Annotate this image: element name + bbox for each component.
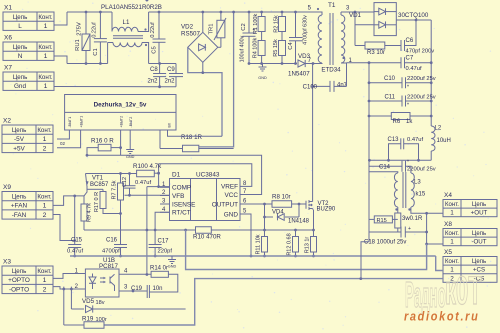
- module pin label: [68, 117, 72, 128]
- wire out vert: [426, 213, 428, 244]
- svg-text:BC857: BC857: [90, 182, 109, 188]
- wire X3 pin2: [53, 287, 85, 291]
- transistor VT1: [84, 174, 103, 196]
- ic left pins: [160, 182, 195, 217]
- svg-text:+ВЫГ1: +ВЫГ1: [79, 116, 83, 128]
- wire R100 to COMP: [157, 164, 160, 188]
- label pin1: [349, 58, 353, 64]
- label C7 value: [406, 66, 423, 72]
- wire dezhurka gnd pin: [129, 130, 131, 146]
- wire bridge bottom: [201, 62, 204, 74]
- resistor R4: [258, 32, 265, 65]
- svg-text:T1: T1: [328, 2, 336, 9]
- label R19: [82, 316, 107, 324]
- label VD1: [349, 12, 362, 19]
- label C8: [150, 67, 158, 73]
- wire L3 left bottom: [397, 207, 399, 213]
- svg-text:R100 4.7k: R100 4.7k: [133, 163, 162, 170]
- svg-text:C8: C8: [150, 67, 158, 73]
- label BC857: [90, 182, 109, 188]
- label R7: [112, 180, 118, 199]
- label BUZ90: [317, 207, 336, 213]
- resistor R7: [118, 174, 124, 245]
- capacitor C15: [68, 245, 81, 258]
- svg-text:R13 1r: R13 1r: [305, 237, 311, 254]
- module pin label: [119, 116, 123, 128]
- capacitor C1: [94, 11, 107, 65]
- label L2 value: [437, 138, 451, 144]
- resistor R9: [81, 196, 87, 230]
- svg-text:ETD34: ETD34: [321, 67, 341, 74]
- svg-text:GND: GND: [224, 211, 239, 218]
- wire R3 branch: [354, 25, 356, 46]
- svg-text:100r: 100r: [96, 317, 107, 323]
- wire bottom rail: [67, 63, 108, 65]
- svg-text:1N5407: 1N5407: [288, 71, 310, 78]
- svg-text:R7 7.5k: R7 7.5k: [112, 180, 118, 199]
- label VT1: [92, 176, 104, 182]
- connector X1: [3, 5, 54, 31]
- connector X5: [443, 249, 497, 282]
- ground control: [168, 256, 177, 269]
- label 4n7: [337, 83, 348, 89]
- transistor VT2 BUZ90: [306, 200, 313, 210]
- svg-text:100uf 400v: 100uf 400v: [240, 35, 246, 62]
- svg-text:GND: GND: [258, 76, 267, 80]
- svg-text:GND: GND: [168, 265, 177, 269]
- svg-text:R2 15k: R2 15k: [273, 15, 279, 33]
- capacitor C5: [153, 11, 166, 65]
- transformer T1 core: [330, 13, 333, 65]
- svg-text:Конт.: Конт.: [37, 127, 52, 134]
- module pin label: [79, 116, 83, 128]
- svg-text:VD2: VD2: [181, 24, 194, 31]
- svg-text:C15: C15: [71, 238, 83, 244]
- svg-text:-ВЫГ2: -ВЫГ2: [129, 117, 133, 128]
- wire gnd pin5: [250, 214, 253, 257]
- svg-text:C1: C1: [93, 48, 99, 55]
- phase dots L3: [395, 208, 410, 210]
- label R17: [94, 192, 100, 212]
- svg-text:C19: C19: [131, 286, 143, 292]
- svg-text:R16 0 R: R16 0 R: [91, 138, 114, 145]
- wire R9 R10 line: [84, 0, 196, 231]
- resistor R11: [262, 230, 268, 257]
- svg-text:4700pf: 4700pf: [102, 248, 120, 254]
- svg-text:18v: 18v: [96, 300, 105, 306]
- wire bottom rail 2: [149, 63, 176, 65]
- resistor R8: [272, 201, 306, 208]
- wire sense A up: [426, 244, 428, 269]
- label C10 value: [407, 76, 436, 82]
- svg-text:L3: L3: [414, 180, 421, 186]
- module pin label: [129, 117, 133, 128]
- ic right pins: [212, 181, 251, 218]
- wire COMP line: [146, 187, 170, 276]
- svg-text:2n2: 2n2: [165, 79, 176, 85]
- wire X1 to top rail: [54, 12, 67, 25]
- svg-text:30CTQ100: 30CTQ100: [398, 12, 429, 19]
- transformer L3 right: [411, 173, 414, 207]
- label U1B: [103, 257, 115, 264]
- label VT2: [318, 201, 330, 207]
- svg-text:470pf 200v: 470pf 200v: [406, 49, 435, 55]
- capacitor C6: [385, 20, 416, 51]
- capacitor C12: [124, 174, 136, 197]
- svg-text:Конт.: Конт.: [37, 268, 52, 275]
- connector X6: [3, 35, 54, 61]
- wire R19 branch: [64, 287, 84, 325]
- choke L1 lower winding: [108, 43, 149, 64]
- label R100: [133, 163, 162, 170]
- svg-text:C4: C4: [288, 42, 294, 50]
- svg-text:Конт.: Конт.: [37, 193, 52, 200]
- label C11: [384, 95, 395, 101]
- label C12: [122, 177, 128, 187]
- svg-text:C9: C9: [167, 67, 175, 73]
- svg-text:VD5: VD5: [82, 298, 95, 305]
- svg-text:X9: X9: [3, 184, 11, 191]
- label R16: [91, 138, 114, 145]
- svg-text:-OUT: -OUT: [471, 239, 486, 246]
- svg-text:X4: X4: [444, 192, 452, 199]
- wire X7 to C8 node: [54, 86, 160, 88]
- capacitor C100: [311, 81, 346, 92]
- svg-text:Цепь: Цепь: [13, 44, 28, 51]
- capacitor C18: [369, 226, 428, 238]
- svg-text:+OPTO: +OPTO: [8, 277, 30, 284]
- label RS507: [181, 31, 200, 38]
- svg-text:220pf: 220pf: [158, 249, 173, 255]
- label C18: [364, 240, 406, 246]
- wire X8 row: [425, 243, 443, 246]
- svg-text:C5: C5: [152, 46, 158, 53]
- svg-text:L: L: [18, 23, 22, 30]
- capacitor C9: [169, 64, 183, 87]
- label T1: [328, 2, 336, 9]
- diode VD1a: [374, 8, 396, 15]
- svg-text:Gnd: Gnd: [14, 83, 27, 90]
- svg-text:BUZ90: BUZ90: [317, 207, 336, 213]
- svg-text:X6: X6: [4, 35, 12, 42]
- label k15: [416, 192, 426, 198]
- svg-text:X8: X8: [444, 221, 452, 228]
- wire bridge right: [218, 46, 221, 48]
- label C13: [387, 137, 399, 143]
- resistor R17: [100, 189, 121, 213]
- svg-text:0.47uf: 0.47uf: [406, 66, 423, 72]
- wire HV minus rail: [249, 63, 297, 65]
- svg-text:4700pf 630v: 4700pf 630v: [303, 15, 309, 45]
- svg-text:R10 470R: R10 470R: [193, 234, 221, 241]
- svg-text:0.22uf: 0.22uf: [150, 22, 156, 38]
- diode VD4: [263, 204, 299, 230]
- label C6 value: [406, 49, 435, 55]
- label L3: [414, 180, 421, 186]
- svg-text:0.47uf: 0.47uf: [135, 180, 152, 186]
- label C100: [303, 85, 318, 91]
- svg-text:C13: C13: [387, 137, 399, 143]
- svg-text:C100: C100: [303, 85, 318, 91]
- svg-text:VT1: VT1: [92, 176, 104, 182]
- label 2n2 C9: [165, 79, 176, 85]
- svg-text:Конт.: Конт.: [445, 259, 459, 265]
- label pin5: [308, 6, 312, 12]
- svg-text:1: 1: [43, 136, 47, 143]
- resistor R15: [369, 216, 398, 223]
- svg-text:Конт.: Конт.: [38, 74, 53, 81]
- svg-text:C2: C2: [241, 23, 247, 30]
- svg-text:X5: X5: [444, 249, 452, 256]
- svg-text:2200uf 25v: 2200uf 25v: [407, 76, 436, 82]
- wire secondary top rail: [341, 11, 374, 14]
- svg-text:Цепь: Цепь: [12, 268, 27, 275]
- wire L3 out to X4: [411, 207, 443, 215]
- capacitor C7: [401, 57, 433, 68]
- transformer L3 core: [403, 172, 406, 208]
- svg-text:-OPTO: -OPTO: [9, 286, 29, 293]
- svg-text:1: 1: [43, 277, 47, 284]
- resistor 3w0.1R: [395, 213, 401, 232]
- svg-text:C14: C14: [379, 165, 391, 171]
- capacitor C19: [147, 285, 149, 298]
- label C9: [167, 67, 175, 73]
- label C16 value: [102, 248, 120, 254]
- svg-text:PLA10AN5521R0R2B: PLA10AN5521R0R2B: [101, 4, 162, 11]
- connector X4: [443, 192, 497, 217]
- svg-text:R11 10k: R11 10k: [256, 234, 262, 254]
- svg-text:TR1: TR1: [209, 24, 215, 35]
- wire C8 C9 bottom: [160, 86, 176, 88]
- label TR1: [209, 24, 215, 35]
- svg-text:-ВЫГ1: -ВЫГ1: [68, 117, 72, 128]
- wire dezhurka out pin: [159, 130, 161, 149]
- capacitor C17: [149, 212, 170, 257]
- label R15: [377, 218, 387, 224]
- wire mid rail: [368, 159, 431, 162]
- svg-text:R9 4.7k: R9 4.7k: [87, 203, 93, 222]
- label R1: [253, 14, 259, 35]
- wire VT2 source: [313, 210, 315, 231]
- label R13: [305, 237, 311, 254]
- transformer L3 left: [369, 172, 398, 207]
- label C19: [131, 286, 143, 292]
- wire VREF line: [159, 164, 252, 187]
- capacitor C10: [369, 77, 433, 90]
- svg-text:Конт.: Конт.: [445, 202, 459, 208]
- label C17: [158, 239, 170, 245]
- diode VD5 zener: [71, 305, 185, 312]
- capacitor C11: [369, 96, 433, 109]
- svg-text:C16: C16: [106, 238, 118, 244]
- svg-text:X1: X1: [4, 5, 12, 12]
- svg-text:N: N: [18, 53, 23, 60]
- connector X9: [2, 184, 53, 219]
- label pin3: [346, 6, 350, 12]
- label C2: [241, 23, 247, 30]
- svg-text:R17 0 R: R17 0 R: [94, 192, 100, 212]
- svg-text:R19: R19: [82, 316, 94, 323]
- svg-text:-FAN: -FAN: [12, 212, 27, 219]
- svg-text:ВХ: ВХ: [167, 122, 171, 127]
- connector X8: [443, 221, 497, 246]
- label R14: [150, 266, 168, 272]
- wire top rail: [67, 11, 112, 13]
- choke L1 core: [113, 36, 143, 38]
- ground primary: [258, 64, 267, 81]
- label C4: [288, 42, 294, 50]
- svg-text:C7: C7: [406, 56, 414, 62]
- phase dot T1: [317, 8, 345, 59]
- svg-text:1: 1: [44, 23, 48, 30]
- svg-text:10n: 10n: [153, 286, 163, 292]
- svg-text:2200uf 25v: 2200uf 25v: [407, 167, 436, 173]
- label D1: [172, 172, 181, 179]
- connector X7: [3, 65, 54, 91]
- wire right bus: [430, 20, 432, 126]
- optocoupler pin numbers: [75, 269, 128, 291]
- wire C15 vert: [74, 196, 76, 245]
- label C14: [379, 165, 391, 171]
- wire control gnd bus: [70, 255, 436, 257]
- wire sense line B: [104, 277, 443, 325]
- label R5: [273, 39, 279, 57]
- label C15: [71, 238, 83, 244]
- wire VCC line: [87, 155, 262, 194]
- label VD3: [298, 53, 311, 60]
- svg-text:1N4148: 1N4148: [288, 219, 310, 225]
- svg-text:275V: 275V: [77, 22, 83, 36]
- wire dezhurka vcc pin: [119, 130, 122, 155]
- wire output line: [240, 203, 272, 206]
- svg-text:VCC: VCC: [225, 192, 239, 199]
- svg-text:UC3843: UC3843: [196, 172, 220, 179]
- svg-text:-5V: -5V: [14, 136, 25, 143]
- optocoupler internals: [89, 274, 115, 292]
- ic D1 UC3843 box: [170, 179, 241, 221]
- svg-text:2: 2: [43, 145, 47, 152]
- module Dezhurka: [65, 95, 176, 131]
- svg-text:+: +: [408, 226, 411, 232]
- label VD2: [181, 24, 194, 31]
- label Dezhurka title: [94, 102, 147, 109]
- svg-text:C11: C11: [384, 95, 395, 101]
- label 3w0.1R: [402, 216, 423, 222]
- thermistor TR1: [214, 11, 226, 48]
- wire bus to X5 row1: [436, 256, 443, 271]
- svg-text:L2: L2: [435, 126, 442, 132]
- svg-text:C18 1000uf 25v: C18 1000uf 25v: [364, 240, 406, 246]
- svg-text:R8 10r: R8 10r: [272, 194, 291, 201]
- resistor R16: [86, 144, 121, 156]
- svg-text:Цепь: Цепь: [12, 193, 27, 200]
- capacitor C8: [153, 64, 166, 89]
- wire top rail 2: [149, 11, 313, 13]
- watermark radiokot.ru: [404, 309, 479, 324]
- svg-text:Цепь: Цепь: [13, 14, 28, 21]
- label UC3843: [196, 172, 220, 179]
- svg-text:Конт.: Конт.: [38, 14, 53, 21]
- label R10: [193, 234, 221, 241]
- label R11: [256, 234, 262, 254]
- svg-text:R3 10r: R3 10r: [367, 50, 385, 56]
- wire U1B pin3: [119, 290, 147, 293]
- svg-text:+ВЫГ2: +ВЫГ2: [119, 116, 123, 128]
- label 275V: [77, 22, 83, 36]
- wire T1 pin1 down: [346, 63, 348, 87]
- svg-text:1: 1: [43, 203, 47, 210]
- label C10: [384, 76, 396, 82]
- svg-text:C6: C6: [406, 38, 414, 44]
- label R2: [273, 15, 279, 33]
- svg-text:Цепь: Цепь: [12, 127, 27, 134]
- wire sec bus lower: [368, 160, 370, 242]
- label 10n: [153, 286, 163, 292]
- resistor R6: [369, 113, 433, 120]
- wire VFB line: [125, 194, 170, 196]
- inductor L2: [431, 126, 435, 160]
- transformer T1 primary: [313, 12, 322, 64]
- capacitor C2: [243, 11, 256, 65]
- capacitor C16: [114, 245, 127, 258]
- wire sense line A: [186, 230, 427, 270]
- label pin7: [308, 58, 312, 64]
- wire X2 pin1: [57, 130, 69, 146]
- svg-text:*: *: [407, 85, 409, 91]
- connector X2: [2, 118, 53, 153]
- label R18: [181, 134, 203, 141]
- wire left sec bus: [368, 63, 371, 161]
- wire HV bus down: [199, 11, 235, 147]
- wire bridge top: [201, 11, 204, 33]
- wire VD1 out: [396, 19, 431, 22]
- svg-text:VREF: VREF: [221, 184, 238, 191]
- label C16: [106, 238, 118, 244]
- transformer T1 secondary: [341, 12, 347, 63]
- label C15 value: [67, 248, 84, 254]
- label L1: [123, 19, 130, 26]
- svg-text:C12: C12: [122, 177, 128, 187]
- svg-text:VFB: VFB: [172, 193, 184, 200]
- wire U1B pin4: [119, 0, 151, 274]
- label 0.22uf C5: [150, 22, 156, 38]
- wire zener branch: [70, 287, 72, 309]
- module pin label: [167, 122, 171, 127]
- svg-text:1: 1: [44, 83, 48, 90]
- svg-text:+5V: +5V: [13, 145, 25, 152]
- wire bridge left down: [188, 47, 222, 136]
- wire T1 pin7 node: [312, 62, 315, 200]
- label C2 value: [240, 35, 246, 62]
- label PC817: [99, 263, 118, 270]
- svg-text:к0Т: к0Т: [445, 268, 482, 313]
- wire X9 fan2: [53, 215, 76, 242]
- svg-text:2n2: 2n2: [148, 79, 159, 85]
- svg-text:OUTPUT: OUTPUT: [212, 201, 238, 208]
- wire pin3 stub: [160, 203, 170, 205]
- svg-text:R15: R15: [377, 218, 387, 224]
- label C5: [152, 46, 158, 53]
- label VD5: [82, 298, 105, 306]
- label C4 value: [303, 15, 309, 45]
- diode VD1b: [374, 21, 396, 28]
- svg-text:RT/CT: RT/CT: [172, 210, 191, 217]
- svg-text:0.22uf: 0.22uf: [92, 22, 98, 38]
- svg-text:1: 1: [450, 210, 454, 217]
- svg-text:2: 2: [43, 212, 47, 219]
- svg-text:Dezhurka_12v_5v: Dezhurka_12v_5v: [94, 102, 147, 109]
- label C6: [406, 38, 414, 44]
